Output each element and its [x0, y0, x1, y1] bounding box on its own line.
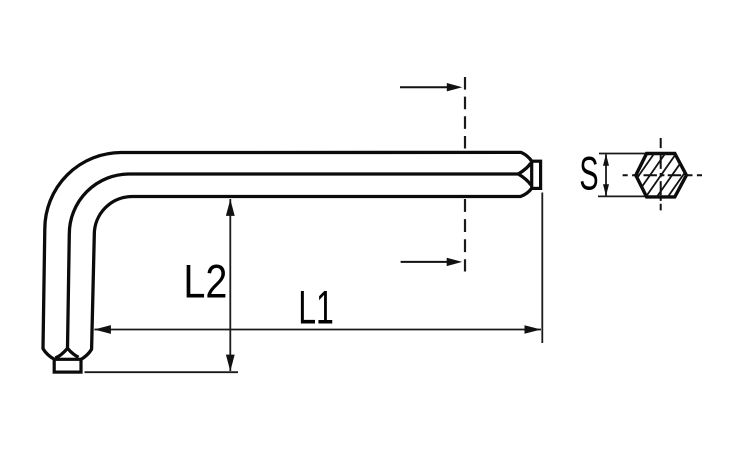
- svg-text:S: S: [579, 147, 598, 200]
- svg-text:L1: L1: [298, 281, 334, 334]
- svg-text:L2: L2: [183, 255, 227, 308]
